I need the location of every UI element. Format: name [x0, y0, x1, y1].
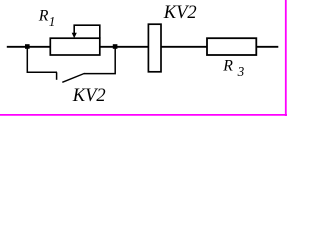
page border bottom (magenta)	[0, 114, 287, 116]
wire bypass branch right-up	[84, 47, 115, 74]
page border right (magenta)	[285, 0, 287, 116]
svg-text:3: 3	[237, 64, 245, 79]
wire coil to R3	[161, 46, 208, 48]
node junction right	[113, 44, 118, 49]
contact KV2 fixed terminal tick	[56, 72, 58, 80]
svg-text:R: R	[222, 57, 233, 74]
wire right segment	[256, 46, 278, 48]
R1 tap bracket wire	[74, 25, 100, 38]
svg-text:KV2: KV2	[163, 3, 197, 23]
svg-text:R: R	[38, 7, 49, 24]
wire left segment	[7, 46, 51, 48]
R1 tap arrowhead	[72, 33, 77, 38]
resistor R3	[207, 38, 256, 55]
svg-text:1: 1	[49, 14, 56, 29]
contact KV2 blade	[62, 73, 84, 82]
wire bypass branch down-left	[27, 47, 57, 72]
wire middle segment	[100, 46, 149, 48]
svg-text:KV2: KV2	[72, 86, 106, 106]
resistor R1	[50, 38, 100, 55]
relay coil KV2	[148, 24, 161, 72]
node junction left	[25, 44, 30, 49]
